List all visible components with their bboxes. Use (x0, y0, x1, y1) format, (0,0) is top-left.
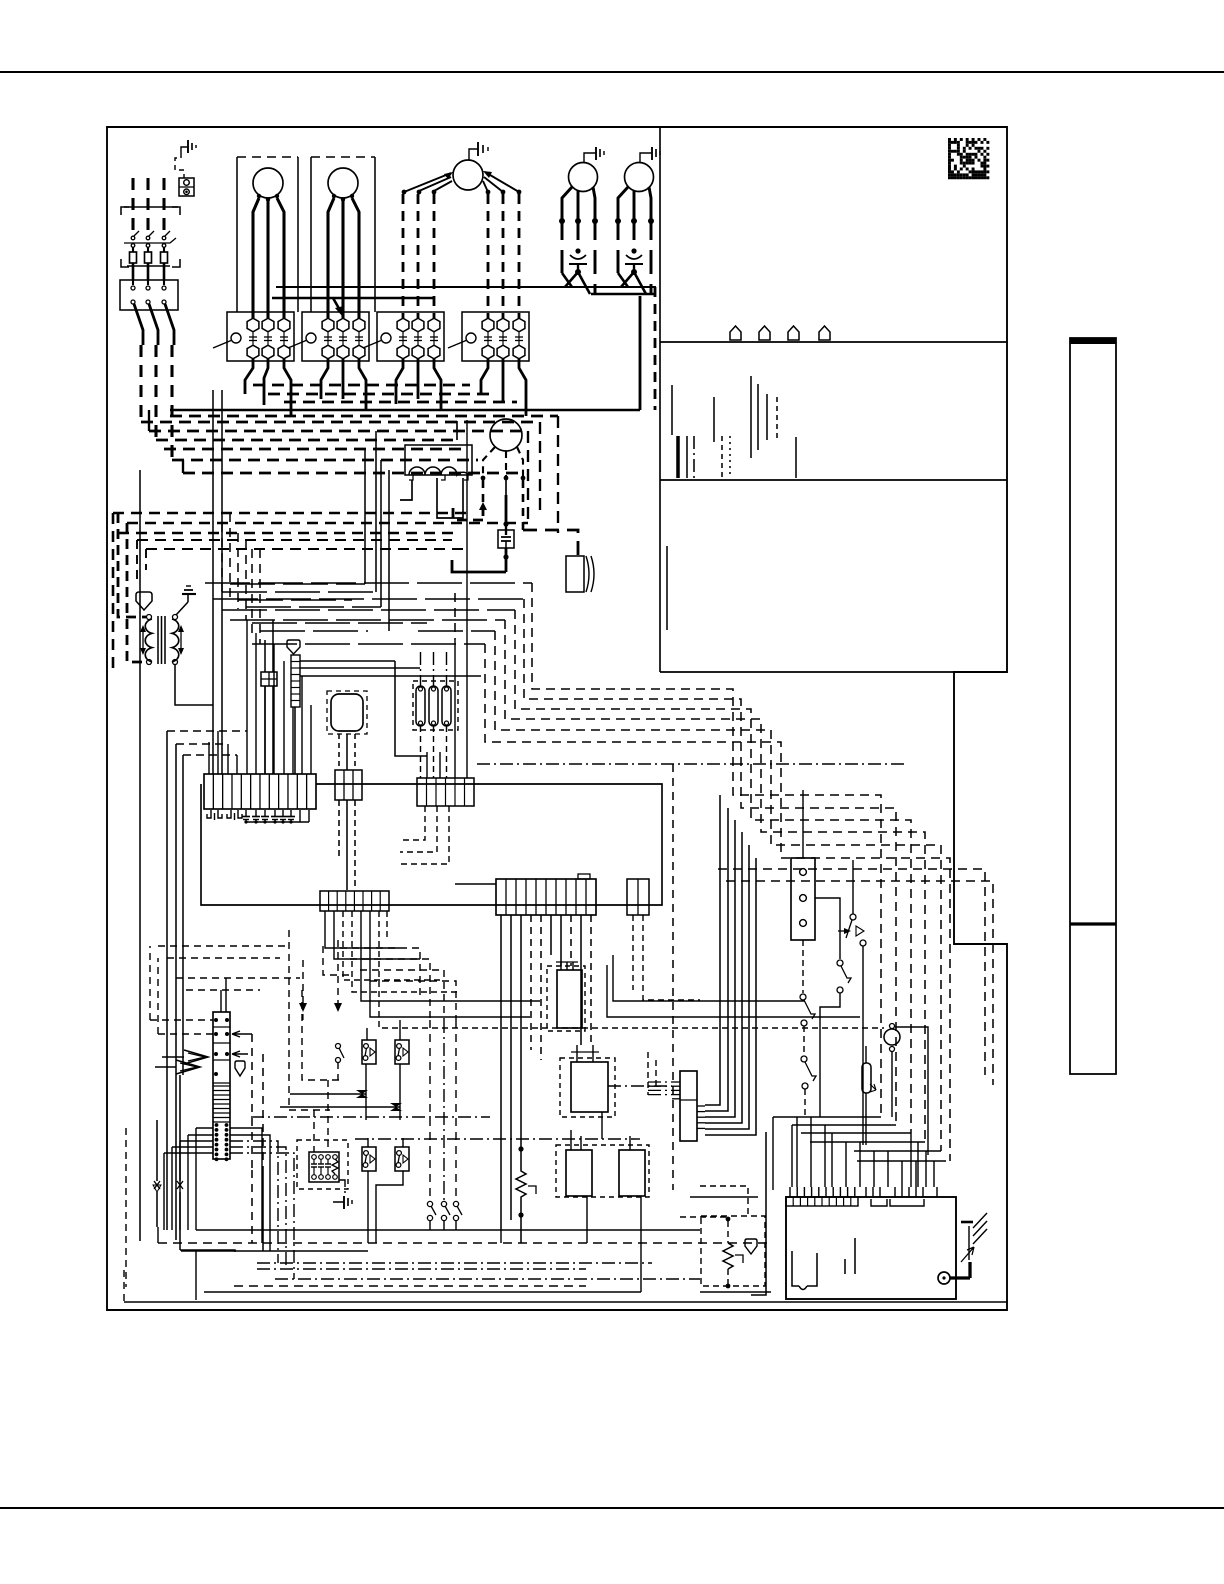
fuse FU (862, 1063, 871, 1093)
EC left feeds (150, 1019, 213, 1021)
legend marker pentagon 3 (788, 326, 799, 340)
rail x183 (182, 755, 184, 1075)
blower motor OFM (490, 419, 522, 451)
EMI element 1 (312, 1155, 317, 1160)
transformer primary feed 1 (118, 513, 146, 617)
PS4 leads (402, 1138, 404, 1147)
rail x176 (175, 744, 177, 1240)
C2 legs (321, 359, 328, 399)
disconnect interlock bar (124, 238, 176, 243)
TB2 drop 2 (334, 911, 420, 959)
ground G4 (333, 1201, 344, 1203)
legend marker pentagon 4 (819, 326, 830, 340)
EC right arrows (232, 1031, 252, 1037)
FM2 junction (575, 269, 581, 275)
contactor C1 box (227, 312, 294, 361)
solenoid 2 feed (433, 652, 435, 686)
ground for FM2 (584, 153, 596, 163)
control board CB (786, 1197, 956, 1299)
FM1 lead drop 4 (487, 194, 490, 318)
heavy bus wire (149, 430, 528, 433)
RC drop wire 6 (705, 858, 756, 1135)
bus y1161 (857, 1160, 946, 1162)
fuse F1 (130, 252, 137, 263)
EC shield (235, 1061, 245, 1076)
EMI feed (313, 1110, 315, 1152)
gas valve GV1 (557, 970, 582, 1028)
wire to switch chain (613, 955, 805, 1001)
solenoid 2 (429, 686, 438, 726)
distribution wire y513 (113, 512, 467, 515)
staircase wire (505, 620, 925, 1142)
solenoid 1 feed (420, 652, 422, 686)
contactor C1 pole 3 (278, 318, 290, 332)
switch SW-B (837, 960, 843, 966)
board feed wire (831, 1133, 833, 1187)
FB drops (264, 686, 266, 774)
mesh riser 4 (245, 540, 247, 620)
EMI ground wire (339, 1180, 345, 1196)
choke lead right (437, 478, 463, 518)
choke windings (409, 467, 469, 475)
chassis ground G5 (961, 1221, 973, 1224)
fuse block FB (261, 672, 277, 686)
bundle riser x158 (157, 1227, 159, 1243)
legend line sample 7 (729, 436, 731, 478)
nest corner v3 (557, 416, 559, 533)
transformer primary feed 2 (127, 523, 146, 662)
ground G2 (176, 602, 188, 615)
sidebar divider (1070, 922, 1116, 925)
M2 lead 3 (352, 198, 359, 318)
TB2 drop 3 (343, 911, 440, 980)
mesh wire (230, 619, 505, 621)
FL1 out (505, 548, 508, 572)
nest corner v2 (527, 431, 529, 523)
connector CB3 (627, 879, 649, 915)
phase wire A heavy (134, 304, 143, 345)
ll mesh 2 (350, 959, 430, 1020)
CB trace 2 (844, 1259, 846, 1274)
ground G1 (181, 147, 188, 153)
CB trace 1 (792, 1251, 799, 1286)
OFM lead mid (505, 451, 507, 476)
legend note line (666, 546, 668, 630)
CS wire 1 drop (395, 661, 427, 756)
FM1 arrow lead left 3 (434, 181, 452, 191)
heavy bus wire (156, 439, 457, 442)
fan motor FM2 (569, 163, 598, 192)
ignition module K2 dashed box (560, 1058, 615, 1117)
PL1 stub hooks (207, 810, 211, 818)
left mesh v3 (323, 946, 350, 975)
supply leads L1 L2 L3 (131, 178, 134, 233)
TB3 feed left (455, 883, 496, 885)
sensor shield (745, 1239, 757, 1254)
compressor motor M2 (328, 168, 358, 198)
contactor C1 pole 2 (262, 318, 274, 332)
nest left riser 2 (182, 460, 184, 473)
bundle y1251 (181, 1250, 368, 1252)
bus y1133 (801, 1132, 911, 1134)
PL1 top feeds (208, 742, 210, 774)
TB3 drop 4 (530, 915, 532, 1050)
left mesh h4 (186, 989, 260, 991)
wire from K2 to RC (608, 1085, 672, 1087)
FM1 arrow lead right 1 (485, 172, 519, 192)
lv switch (429, 1020, 431, 1200)
mesh drop x455 (454, 593, 456, 640)
mesh wire (230, 583, 365, 585)
board feed wire (796, 1117, 798, 1187)
left mesh v1 (289, 930, 330, 1110)
disconnect switch box (121, 207, 129, 215)
TB3 drop 7 (560, 915, 562, 966)
LT wire (895, 1027, 928, 1155)
lv switch (455, 1020, 457, 1200)
TB3 drop 2 (510, 915, 512, 1220)
legend marker pentagon 1 (730, 326, 741, 340)
FM2 lead left (562, 187, 572, 224)
staircase wire (515, 610, 911, 1133)
fan bus drop mid (639, 296, 642, 410)
legend divider 2 (660, 479, 1007, 481)
FM1 arrow lead right 2 (484, 177, 503, 192)
CB3 drop 2 (643, 915, 700, 1000)
terminal strip TB3 (496, 879, 596, 915)
fuse F3 (161, 252, 168, 263)
igniter IGN box (566, 556, 584, 592)
phase wire B heavy (149, 304, 158, 345)
mesh riser d (388, 470, 390, 631)
relay K3 dashed box (556, 1145, 649, 1197)
relay RLY rounded (331, 694, 363, 731)
contactor C2 box (302, 312, 369, 361)
TB2 drop 1 (325, 911, 400, 948)
FM1 lead drop 6 (518, 194, 521, 318)
splice X1 (290, 1093, 366, 1095)
splice X2 (280, 1106, 400, 1108)
staircase wire (495, 631, 941, 1151)
mesh riser 3 (237, 533, 239, 609)
bundle riser x124 (123, 1270, 125, 1302)
sensor thermistor (726, 1217, 731, 1222)
FM1 arrow lead left 2 (419, 177, 451, 191)
EC pins bottom (215, 1123, 219, 1127)
PL1 feed bus 3 (183, 754, 237, 756)
bus risers (772, 1117, 774, 1190)
sensor box (701, 1216, 765, 1286)
fan motor FM3 (625, 163, 654, 192)
solenoid 3 (442, 686, 451, 726)
bundle y1243 (158, 1242, 770, 1244)
TB2 drop 4 (352, 911, 460, 992)
page bottom rule (0, 1507, 1224, 1509)
K2 bottom pin (601, 1112, 603, 1139)
rail x222 (221, 390, 223, 774)
K4 pins (629, 1136, 631, 1150)
CS wire 1 (300, 660, 395, 662)
staircase wire (524, 599, 896, 1125)
bundle y1230 (196, 1229, 700, 1231)
SW-A feed (852, 860, 854, 914)
TB2 drop 8 (386, 911, 388, 940)
mesh segment (418, 630, 495, 632)
contactor C3 pole 1 (397, 318, 409, 332)
pressure switch PS3 (362, 1147, 376, 1171)
FM1 arrow lead right 3 (483, 181, 488, 192)
fuse link FL1 (498, 530, 514, 548)
T1 arrow left (142, 628, 144, 652)
field arrow 1 (302, 960, 304, 1006)
phase wire C heavy (165, 304, 174, 345)
sidebar spine box (1070, 338, 1116, 1074)
FM1 lead drop 5 (502, 194, 505, 318)
RC feeds dashdot (648, 1081, 672, 1083)
legend line sample 1 (671, 385, 673, 435)
heavy bus wire (172, 459, 478, 462)
sidebar top band (1070, 338, 1116, 344)
fan bus 2b (591, 293, 655, 296)
contactor C4 box (462, 312, 529, 361)
CB3 drop 1 (632, 915, 634, 990)
staircase wire 7 (718, 869, 985, 1075)
M2 lead 2 (341, 201, 344, 318)
FM1 lead dot (501, 190, 506, 195)
contactor C2 pole 3 (353, 318, 365, 332)
RC feed verticals (647, 1052, 649, 1095)
ground for FM3 (640, 153, 652, 163)
EMI element 2 (319, 1155, 324, 1160)
solenoid 1 (416, 686, 425, 726)
M1 lead 3 (277, 198, 284, 318)
long bus y410 (170, 409, 640, 412)
RLY drops (338, 734, 340, 770)
EMI filter inner (309, 1152, 339, 1182)
CB terminal (938, 1272, 950, 1284)
mesh wire (246, 606, 381, 608)
connector PL1 (204, 774, 316, 809)
heavy bus wire (284, 401, 517, 404)
pressure switch PS2 (395, 1040, 409, 1064)
legend box left edge (659, 127, 661, 672)
legend divider 1 (660, 341, 1007, 343)
PL1 stub common bus (246, 821, 309, 823)
left mesh h2 (167, 957, 280, 959)
legend box bottom edge (660, 671, 954, 673)
contactor C4 pole 3 (513, 318, 525, 332)
mesh riser 6 (259, 549, 261, 644)
fuse F2 (145, 252, 152, 263)
plug PJ3 (335, 770, 362, 800)
PS1 leads (366, 1028, 368, 1040)
staircase wire (532, 583, 881, 1117)
mesh wire (222, 609, 515, 611)
field wiring dash-dot y764 (477, 763, 905, 765)
legend line sample 10 (766, 394, 768, 440)
switch SW1 (156, 1120, 158, 1181)
FM1 lead drop 2 (417, 194, 420, 318)
contactor C2 pole 2 (337, 318, 349, 332)
page top rule (0, 71, 1224, 73)
mesh wire (260, 630, 368, 632)
compressor 2 enclosure (310, 157, 312, 312)
FM1 lead dot (432, 190, 437, 195)
M2 lead 1 (328, 198, 334, 318)
main diagram border (107, 127, 1007, 1310)
C4 legs (481, 359, 488, 393)
bus y1151 (854, 1150, 941, 1152)
T1 arrow right (180, 628, 182, 652)
FB feeds (264, 640, 266, 672)
K2 top pins (576, 1045, 578, 1062)
switch SW-A (850, 914, 856, 920)
left mesh h3 (176, 977, 300, 979)
right connector RC (680, 1071, 697, 1141)
switch SW2 (179, 1075, 181, 1181)
resistor R1 (516, 1149, 526, 1215)
FM3 lead left (618, 187, 628, 224)
transformer shield (136, 592, 152, 610)
nest corner v4 (456, 421, 458, 440)
solenoid 1 drop (420, 726, 422, 778)
terminal strip TB2 (320, 891, 389, 911)
disconnect pole 3 (162, 236, 166, 240)
board feed wire (810, 1117, 812, 1187)
riser x113 (112, 513, 115, 668)
pressure switch PS1 (362, 1040, 376, 1064)
FM1 lead drop 3 (433, 194, 436, 318)
fan bus vertical drop right (654, 287, 657, 410)
FM2 lead right (593, 187, 595, 224)
TB3 resistor line (520, 915, 522, 1149)
PL1 stub bracket (299, 810, 301, 822)
disconnect pole 1 (131, 236, 135, 240)
dashdot bus y1139 (355, 1138, 640, 1140)
mesh riser b (375, 431, 377, 592)
OFM lead right (517, 447, 523, 476)
CS wire 2 (300, 667, 420, 669)
TB2 drop 6 (370, 911, 530, 1017)
legend line sample 4 (693, 436, 695, 478)
legend line sample 2 (676, 436, 680, 478)
legend line sample 9 (757, 384, 759, 450)
contactor C2 coil (306, 333, 316, 343)
PS2 leads (399, 1020, 401, 1040)
contactor C3 pole 2 (412, 318, 424, 332)
mesh wire (213, 598, 524, 600)
PL1 feed bus 2 (176, 743, 228, 745)
board feed wire (845, 1142, 847, 1187)
condenser fan motor FM1 (453, 160, 483, 190)
field arrow 2 (337, 940, 339, 1006)
contactor C1 coil (231, 333, 241, 343)
ll mesh 1 (340, 948, 420, 1000)
EC bottom fan right (230, 1128, 262, 1243)
contactor C2 pole 1 (322, 318, 334, 332)
bundle y1286 (234, 1285, 586, 1287)
legend line sample 12 (795, 437, 797, 478)
heavy bus wire (268, 393, 490, 396)
contactor C3 pole 3 (428, 318, 440, 332)
EC right drops (251, 1034, 253, 1170)
bundle y1292 (204, 1291, 641, 1293)
legend line sample 3 (686, 436, 688, 478)
TB3 drop 8 (570, 915, 572, 966)
bundle y1279 (275, 1278, 700, 1280)
drop x502 to bundle (500, 1230, 502, 1243)
nest left riser 1 (148, 410, 150, 431)
EMI element 4 (333, 1155, 338, 1160)
FM2 internal protector (575, 248, 580, 253)
edge connector EC (213, 1012, 230, 1159)
contactor C4 pole 1 (482, 318, 494, 332)
sensor feeds (680, 1216, 726, 1218)
rail x167 (166, 731, 168, 1230)
FM1 lead dot (517, 190, 522, 195)
M1 lead 2 (266, 201, 269, 318)
EC pins left top (214, 1018, 218, 1022)
staircase wire 8 (726, 881, 993, 1085)
CB2 drops (400, 806, 425, 840)
SR feed (802, 790, 804, 858)
fan bus 2 (272, 297, 433, 300)
mesh riser 5 (251, 549, 253, 633)
PL1 stub caps (245, 810, 247, 816)
board feed wire (915, 1161, 917, 1187)
wire to SW-A branch (607, 965, 860, 1017)
bundle riser x196 (195, 1251, 197, 1300)
igniter feed wire (523, 530, 578, 556)
riser x146 (145, 549, 147, 570)
EC pins right top (225, 1018, 229, 1022)
contactor C4 coil (466, 333, 476, 343)
TB3 drop 5 (540, 915, 542, 1060)
EC bottom fan left (196, 1127, 213, 1129)
SR wire right (815, 898, 840, 959)
lamp LT (884, 1029, 900, 1045)
C3 legs (396, 359, 403, 404)
contactor C1 pole 1 (247, 318, 259, 332)
mesh wire (252, 643, 485, 645)
FM1 arrow lead left 1 (404, 173, 451, 192)
RC drop wire 4 (705, 832, 742, 1123)
relay K4 (619, 1150, 645, 1196)
mesh wire (222, 591, 376, 593)
choke taps (409, 475, 413, 480)
connector CB2 (417, 778, 474, 806)
C1 legs (245, 359, 253, 394)
field wiring vertical x673 (672, 764, 674, 1190)
dashdot bus y1117 (251, 1116, 490, 1118)
contactor C4 pole 2 (497, 318, 509, 332)
small switch SWF (336, 1044, 341, 1049)
left mesh v2 (302, 990, 340, 1080)
PL1 feed bus 1 (167, 730, 247, 732)
mesh wire (252, 622, 427, 624)
CB ground lead (950, 1276, 970, 1279)
rail x213 (212, 390, 214, 774)
FM1 lead dot (402, 190, 407, 195)
TB3 drop 6 (550, 915, 552, 955)
TB2 drop 7 (379, 911, 884, 1028)
board feed wire (859, 1142, 861, 1187)
legend line sample 11 (776, 397, 778, 440)
EC chevron arrows (184, 1050, 208, 1064)
contactor C3 box (377, 312, 444, 361)
solenoid 3 drop (446, 726, 448, 778)
left dashed rail x126 (125, 1128, 127, 1287)
